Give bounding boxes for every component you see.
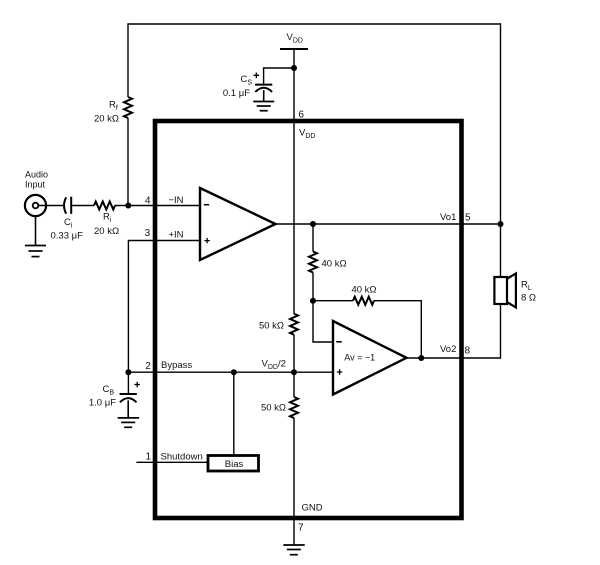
svg-text:1: 1 [145, 452, 151, 463]
capacitor CB [120, 393, 137, 395]
resistor Rf [124, 97, 132, 118]
svg-text:4: 4 [145, 195, 151, 206]
audio input jack [25, 195, 46, 216]
resistor 50k lower [290, 397, 298, 418]
svg-text:40 kΩ: 40 kΩ [322, 258, 347, 269]
svg-text:8 Ω: 8 Ω [521, 292, 536, 303]
svg-text:Vo2: Vo2 [440, 344, 456, 355]
wire +IN to bypass node [128, 241, 200, 373]
svg-text:2: 2 [145, 361, 151, 372]
wire bias tap to Bias block [233, 372, 235, 455]
wire mid node to -in of A2 [313, 301, 333, 342]
plus mark CB [134, 382, 140, 388]
node bypass/CB junction [125, 369, 131, 375]
wire Ri to -IN of amp [115, 205, 200, 207]
node bias tap [231, 369, 237, 375]
svg-text:Av = −1: Av = −1 [344, 353, 375, 363]
node Vo1/40k junction [310, 221, 316, 227]
svg-text:50 kΩ: 50 kΩ [259, 321, 284, 332]
wire jack to ground [35, 216, 37, 245]
Bias block [208, 456, 259, 472]
node 40k junction [310, 298, 316, 304]
svg-text:40 kΩ: 40 kΩ [351, 285, 376, 296]
ground (CB) [118, 418, 139, 427]
svg-text:6: 6 [298, 109, 304, 120]
svg-text:7: 7 [298, 523, 304, 534]
wire 50k to GND [293, 418, 295, 545]
svg-text:Shutdown: Shutdown [161, 452, 203, 463]
node VDD/2 [291, 369, 297, 375]
svg-text:8: 8 [465, 345, 471, 356]
wire CB lead [127, 372, 129, 393]
node -IN junction [125, 203, 131, 209]
svg-text:Vo1: Vo1 [440, 212, 456, 223]
svg-text:0.33 μF: 0.33 μF [51, 231, 84, 242]
capacitor CS [255, 84, 272, 86]
svg-text:20 kΩ: 20 kΩ [94, 114, 119, 125]
wire Vo1 output [276, 223, 501, 225]
svg-text:0.1 μF: 0.1 μF [223, 88, 250, 99]
wire speaker down to Vo2 [500, 304, 502, 359]
wire jack to Ci [38, 205, 63, 207]
wire bypass rail [128, 371, 333, 373]
wire 50k to VDD/2 node [293, 335, 295, 397]
resistor 40k vertical [309, 252, 317, 273]
svg-text:1.0 μF: 1.0 μF [89, 398, 116, 409]
svg-text:GND: GND [302, 503, 323, 514]
wire VDD rail down to pin 6 and divider [293, 49, 295, 314]
resistor 50k upper [290, 314, 298, 335]
svg-text:50 kΩ: 50 kΩ [261, 403, 286, 414]
node Vo2 junction [418, 355, 424, 361]
svg-text:3: 3 [145, 228, 151, 239]
resistor Ri [94, 202, 115, 210]
wire Ci to Ri [72, 205, 94, 207]
wire top feedback horizontal [128, 23, 501, 25]
wire Vo1 node down to speaker [500, 224, 502, 277]
op-amp A1 [200, 188, 276, 260]
wire mid node to 40k horizontal [313, 300, 353, 302]
svg-text:Bias: Bias [225, 459, 244, 470]
svg-text:−IN: −IN [169, 195, 184, 206]
wire Vo2 output [407, 357, 501, 359]
svg-text:20 kΩ: 20 kΩ [94, 226, 119, 237]
node VDD/CS junction [291, 65, 297, 71]
op-amp A2 [333, 321, 407, 395]
capacitor Ci [64, 197, 66, 213]
node Vo1 feedback junction [498, 221, 504, 227]
wire 40k to mid node [312, 273, 314, 301]
wire CS branch [264, 68, 294, 84]
ground (CS) [253, 102, 274, 111]
svg-text:+IN: +IN [169, 230, 184, 241]
wire feedback right vertical to Vo1 [500, 23, 502, 224]
wire Vo1 to 40k [312, 224, 314, 252]
IC box U1 [155, 121, 462, 518]
svg-text:Bypass: Bypass [161, 360, 192, 371]
svg-text:Audio: Audio [25, 170, 48, 180]
wire 40k to Vo2 [374, 301, 421, 358]
wire shutdown [136, 461, 208, 463]
ground (audio input) [25, 246, 46, 257]
resistor 40k horizontal [353, 297, 374, 305]
wire feedback left vertical to Rf [127, 23, 129, 97]
wire Rf to -IN node [127, 118, 129, 206]
svg-text:Input: Input [25, 180, 46, 190]
speaker RL [494, 277, 507, 304]
plus mark CS [254, 73, 260, 79]
svg-text:5: 5 [465, 212, 471, 223]
ground (pin 7) [283, 545, 304, 555]
